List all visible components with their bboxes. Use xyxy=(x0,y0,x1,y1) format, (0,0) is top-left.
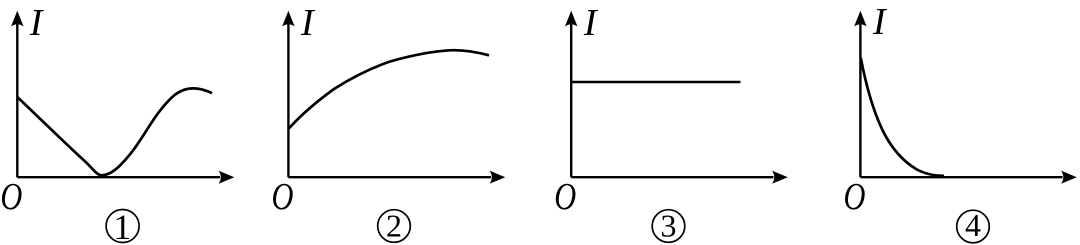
curve panel 4: decay to zero xyxy=(861,58,944,176)
svg-text:O: O xyxy=(844,176,866,218)
x-axis panel 4 xyxy=(860,171,1076,184)
svg-text:O: O xyxy=(554,176,576,218)
x-axis panel 1 xyxy=(17,171,234,184)
y-axis panel 4 xyxy=(854,11,867,177)
x-axis panel 3 xyxy=(571,171,788,184)
circled number 4 xyxy=(957,207,990,243)
circled number 1 xyxy=(106,207,139,245)
circled number 2 xyxy=(378,208,411,244)
svg-text:I: I xyxy=(583,2,599,44)
curve panel 2: saturating rise xyxy=(289,50,489,128)
svg-text:I: I xyxy=(29,2,45,44)
curve panel 1: falls to zero then S-rise to plateau xyxy=(17,88,212,175)
svg-text:O: O xyxy=(272,176,294,218)
svg-text:3: 3 xyxy=(661,208,677,244)
svg-text:I: I xyxy=(872,1,888,43)
y-axis panel 3 xyxy=(565,11,578,177)
svg-text:O: O xyxy=(0,176,22,218)
y-axis panel 2 xyxy=(282,11,295,177)
svg-text:1: 1 xyxy=(113,207,131,245)
x-axis panel 2 xyxy=(288,171,505,184)
svg-text:I: I xyxy=(300,2,316,44)
svg-text:2: 2 xyxy=(386,208,402,244)
svg-text:4: 4 xyxy=(965,207,981,243)
y-axis panel 1 xyxy=(11,11,24,177)
circled number 3 xyxy=(652,208,685,244)
curve panel 3: constant line xyxy=(571,81,740,84)
